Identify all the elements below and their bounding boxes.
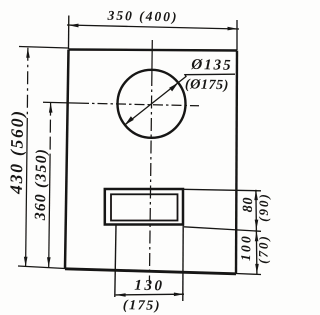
top dim extension right: [236, 20, 238, 50]
right ext line mid (notch bottom): [184, 227, 261, 232]
top dimension line: [67, 25, 239, 29]
arrow top dim right: [228, 27, 238, 31]
svg-text:(90): (90): [256, 192, 272, 222]
arrow left outer top: [26, 48, 30, 58]
hole circle: [118, 70, 186, 138]
right dimension line 80/100: [256, 190, 257, 274]
slot right edge: [182, 225, 184, 301]
arrow right dim top: [254, 190, 258, 200]
svg-text:80: 80: [241, 197, 256, 213]
horizontal centerline dash-dot: [79, 103, 199, 106]
bottom baseline ext left: [18, 266, 65, 269]
arrow leader upper: [169, 83, 178, 92]
plate outline bottom edge: [65, 269, 236, 274]
arrow top dim left: [69, 24, 79, 28]
plate outline left edge: [65, 50, 69, 269]
notch inner rectangle: [111, 194, 178, 220]
bottom baseline ext right: [236, 274, 261, 275]
notch outer rectangle: [105, 189, 183, 225]
arrow left inner top: [49, 103, 53, 113]
vertical centerline dash-dot: [149, 73, 152, 283]
arrow right dim mid upper: [255, 220, 259, 230]
leader diameter line: [125, 74, 235, 125]
arrow leader lower: [125, 116, 134, 125]
bottom dimension line 130: [116, 293, 184, 296]
svg-text:360 (350): 360 (350): [32, 148, 50, 222]
svg-text:130: 130: [134, 278, 165, 295]
horizontal centerline solid left: [43, 101, 79, 104]
arrow right dim bottom: [255, 264, 259, 274]
svg-text:350 (400): 350 (400): [106, 8, 178, 25]
arrow left inner bottom: [47, 257, 51, 267]
svg-text:430 (560): 430 (560): [6, 109, 27, 195]
right ext line top (notch top): [183, 189, 261, 191]
arrow left outer bottom: [24, 257, 28, 267]
arrow bottom dim left: [116, 293, 126, 297]
plate outline right edge: [236, 51, 237, 274]
left inner dim line 360: [49, 103, 52, 162]
svg-text:100: 100: [238, 234, 253, 261]
svg-text:Ø135: Ø135: [190, 57, 233, 74]
left outer ext line top: [19, 47, 68, 49]
slot left edge: [115, 225, 116, 297]
svg-text:(Ø175): (Ø175): [185, 77, 229, 93]
arrow bottom dim right: [174, 293, 184, 297]
left outer dim line 430: [26, 48, 29, 118]
svg-text:(70): (70): [255, 234, 271, 264]
svg-text:(175): (175): [123, 298, 162, 314]
arrow right dim mid lower: [255, 231, 259, 241]
top dim extension left: [68, 16, 70, 50]
vertical centerline solid top: [151, 40, 153, 73]
plate outline top edge: [69, 50, 238, 51]
